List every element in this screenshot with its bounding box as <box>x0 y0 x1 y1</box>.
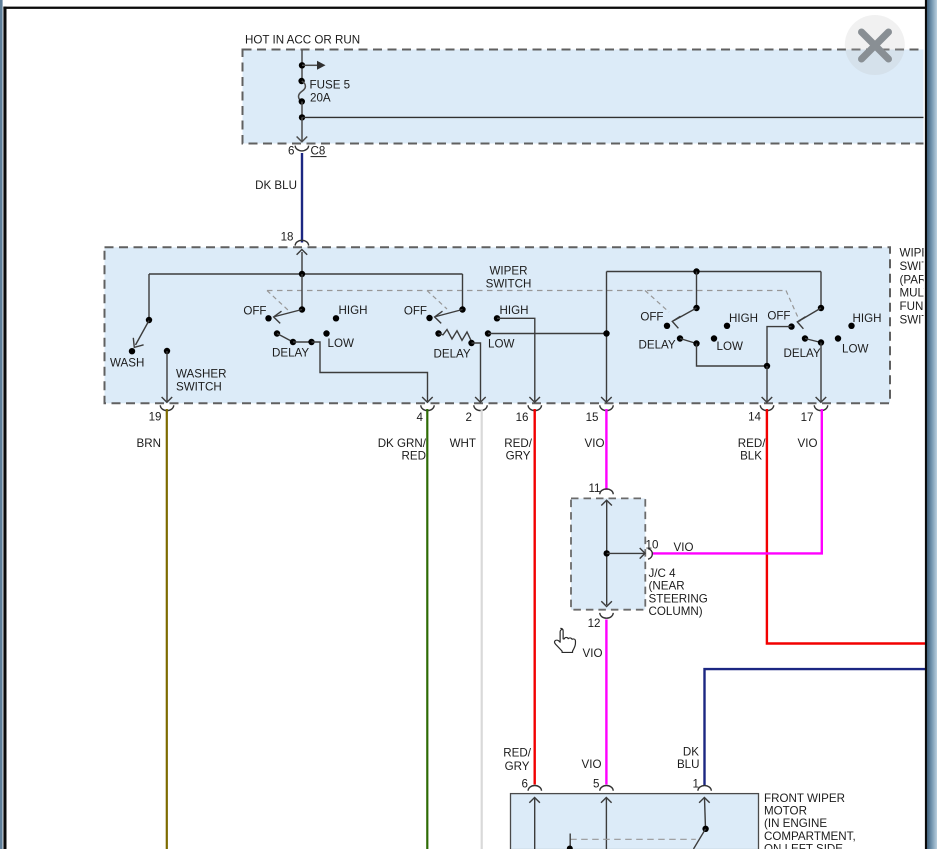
wire BRN from pin 19 <box>166 409 168 849</box>
label DK GRN/RED <box>378 437 427 463</box>
svg-text:WHT: WHT <box>450 437 476 450</box>
switch 4 HIGH contact <box>848 323 854 329</box>
svg-text:ON LEFT SIDE: ON LEFT SIDE <box>764 843 843 849</box>
junction dot feed switch 3 <box>693 268 699 274</box>
wire RED/BLK from pin 14 to right edge <box>767 409 925 644</box>
svg-text:C8: C8 <box>311 145 326 158</box>
svg-text:MOTOR: MOTOR <box>764 805 807 818</box>
svg-text:VIO: VIO <box>582 758 602 771</box>
connector pin 14 <box>748 405 774 423</box>
svg-text:DELAY: DELAY <box>784 347 821 360</box>
svg-text:DK BLU: DK BLU <box>255 179 297 192</box>
svg-text:DELAY: DELAY <box>272 347 309 360</box>
svg-text:HIGH: HIGH <box>853 312 882 325</box>
switch 4 pivot node <box>818 305 824 311</box>
close button <box>845 15 905 75</box>
wire branch arrow right <box>302 61 326 70</box>
svg-text:6: 6 <box>522 778 528 791</box>
wire VIO from junction block pin 12 to motor pin 5 <box>605 620 607 785</box>
wire motor pin 5 entry arrow up <box>601 798 612 849</box>
wire RED/GRY from pin 16 to motor pin 6 <box>534 409 536 785</box>
connector pin 12 junction block <box>588 613 614 630</box>
front wiper motor box <box>511 794 759 849</box>
wire switch 1 delay to pin 4 with arrow <box>312 342 433 402</box>
wire VIO from pin 15 to junction block <box>605 409 607 490</box>
wire fuse feed from box top <box>301 50 303 81</box>
switch 3 OFF contact <box>664 323 670 329</box>
svg-text:HOT IN ACC OR RUN: HOT IN ACC OR RUN <box>245 34 360 47</box>
wire junction block branch right with arrow <box>607 548 645 559</box>
label WIPER SWITCH (PART OF MULTI-FUNCTION SWITCH) right margin <box>900 247 937 327</box>
svg-text:LOW: LOW <box>717 340 743 353</box>
wire pin 15 vertical with arrow <box>601 272 612 403</box>
wiper switch box <box>105 247 891 403</box>
svg-text:2: 2 <box>466 411 472 424</box>
svg-text:DK GRN/: DK GRN/ <box>378 437 427 450</box>
switch 4 OFF contact <box>788 323 794 329</box>
switch 2 OFF contact <box>426 315 432 321</box>
junction dot at fuse output <box>299 114 305 120</box>
svg-text:11: 11 <box>588 482 600 495</box>
junction dot J/C 4 <box>604 550 610 556</box>
svg-text:DELAY: DELAY <box>434 348 471 361</box>
label FRONT WIPER MOTOR (IN ENGINE COMPARTMENT...) <box>764 792 856 849</box>
label J/C 4 (NEAR STEERING COLUMN) <box>649 567 708 618</box>
wire switch 2 LOW to pin 15 line <box>488 333 607 335</box>
dashed mechanical linkage line <box>267 290 787 292</box>
svg-text:WASH: WASH <box>110 357 144 370</box>
wire DK BLU C8 to wiper switch pin 18 <box>301 153 303 243</box>
svg-text:STEERING: STEERING <box>649 592 708 605</box>
fuse FUSE 5 element <box>298 78 305 105</box>
svg-text:16: 16 <box>516 411 529 424</box>
svg-text:VIO: VIO <box>798 437 818 450</box>
switch 4 DELAY contact and blade <box>802 335 824 345</box>
svg-text:COMPARTMENT,: COMPARTMENT, <box>764 830 856 843</box>
svg-text:4: 4 <box>417 411 424 424</box>
svg-text:LOW: LOW <box>842 343 868 356</box>
svg-text:WIPER: WIPER <box>489 265 527 278</box>
wire DK GRN/RED from pin 4 <box>426 409 428 849</box>
wire feed corner down to switch 4 pivot <box>820 272 822 309</box>
power distribution box (hot in acc or run) <box>243 50 937 144</box>
wire motor pin 6 entry arrow up <box>529 798 540 849</box>
switch 1 pivot node <box>299 306 305 312</box>
svg-text:(IN ENGINE: (IN ENGINE <box>764 817 827 830</box>
connector motor pin 6 <box>522 778 542 791</box>
junction dot at fuse feed <box>299 62 305 68</box>
svg-text:DK: DK <box>683 746 699 759</box>
wire feed corner down to switch 2 pivot <box>462 274 464 310</box>
connector pin 16 <box>516 405 542 424</box>
switch 2 blade with arrow to OFF <box>435 310 463 324</box>
junction block J/C 4 box <box>571 498 645 609</box>
label RED/GRY at motor <box>503 747 531 773</box>
label WIPER SWITCH <box>486 265 532 291</box>
svg-text:(NEAR: (NEAR <box>649 580 685 593</box>
label WASHER SWITCH <box>176 368 226 394</box>
value label FUSE 5 / 20A <box>310 79 351 105</box>
wire DK BLU from right edge to motor pin 1 <box>705 669 926 785</box>
connector pin 17 <box>801 405 828 424</box>
dashed linkage diagonal switch 2 <box>427 291 447 310</box>
switch 2 pivot node <box>459 306 465 312</box>
connector pin 4 <box>417 405 435 424</box>
wire feed down to switch 3 pivot <box>696 272 698 309</box>
wire switch 4 OFF to junction <box>767 327 792 366</box>
svg-text:OFF: OFF <box>243 305 266 318</box>
page frame top black border <box>3 7 925 9</box>
switch 3 pivot node <box>693 305 699 311</box>
switch 2 HIGH contact <box>494 315 500 321</box>
wire fuse output down with arrow to C8 <box>297 117 308 141</box>
svg-text:HIGH: HIGH <box>339 304 368 317</box>
svg-text:OFF: OFF <box>404 305 427 318</box>
svg-text:RED/: RED/ <box>738 437 766 450</box>
wire WHT from pin 2 <box>481 409 483 849</box>
wire switch 3 delay to junction under switch 4 <box>697 344 768 367</box>
junction dot off4 delay3 <box>764 363 770 369</box>
label DK BLU at motor <box>677 746 700 771</box>
switch 3 DELAY contact and blade <box>677 335 700 346</box>
label RED/BLK <box>738 437 766 463</box>
mouse cursor pointer <box>555 628 576 652</box>
switch 4 LOW contact <box>835 335 841 341</box>
svg-text:COLUMN): COLUMN) <box>649 605 703 618</box>
connector C8 pin 6 <box>288 145 326 158</box>
svg-text:12: 12 <box>588 617 601 630</box>
connector pin 11 junction block <box>588 482 613 495</box>
connector pin 15 <box>586 405 614 424</box>
svg-text:FUSE 5: FUSE 5 <box>310 79 351 92</box>
motor park switch blade node <box>702 826 708 832</box>
page frame left black border <box>3 7 6 849</box>
wire switch 4 delay to pin 17 with arrow <box>816 343 827 403</box>
svg-text:FRONT WIPER: FRONT WIPER <box>764 792 845 805</box>
svg-text:SWITCH: SWITCH <box>486 278 532 291</box>
connector pin 19 <box>149 405 174 423</box>
dashed linkage diagonal switch 1 <box>267 291 289 312</box>
svg-text:WASHER: WASHER <box>176 368 226 381</box>
wire pin18 entry arrow up <box>297 250 308 275</box>
scrollbar blue bar <box>927 0 937 849</box>
svg-text:RED: RED <box>402 450 426 463</box>
svg-text:DELAY: DELAY <box>639 339 676 352</box>
wire feed bus right (pin 15 to switches 3 and 4) <box>607 271 822 273</box>
svg-text:10: 10 <box>646 539 659 552</box>
svg-text:J/C 4: J/C 4 <box>649 567 677 580</box>
node wash branch contact <box>146 317 152 323</box>
wire motor pin 1 entry arrow up <box>699 798 710 829</box>
page frame left blue sliver <box>0 0 3 849</box>
svg-text:RED/: RED/ <box>503 747 531 760</box>
wire washer switch to pin 19 with arrow <box>162 351 173 402</box>
dashed linkage diagonal switch 4 <box>786 291 800 323</box>
svg-text:VIO: VIO <box>583 647 603 660</box>
wire wash branch down <box>148 274 150 320</box>
junction dot low2 to pin15 <box>603 330 609 336</box>
svg-text:VIO: VIO <box>674 541 694 554</box>
connector motor pin 5 <box>593 778 613 791</box>
svg-text:VIO: VIO <box>585 437 605 450</box>
wire VIO from pin 17 to junction block pin 10 <box>652 409 822 553</box>
svg-text:20A: 20A <box>310 92 331 105</box>
motor park switch blade <box>694 829 706 849</box>
svg-text:OFF: OFF <box>640 311 663 324</box>
svg-text:5: 5 <box>593 778 599 791</box>
wire fuse output bus to right edge <box>302 116 924 118</box>
svg-text:LOW: LOW <box>488 338 514 351</box>
svg-text:GRY: GRY <box>505 760 530 773</box>
svg-text:14: 14 <box>748 411 761 424</box>
connector pin 10 junction block <box>646 539 659 560</box>
resistor delay switch 2 <box>435 330 474 347</box>
washer switch contact node <box>164 348 170 354</box>
page frame right black border <box>925 0 927 849</box>
switch 1 LOW contact <box>323 330 329 336</box>
svg-text:RED/: RED/ <box>504 437 532 450</box>
motor park switch dashed linkage <box>567 834 696 849</box>
connector motor pin 1 <box>693 778 712 791</box>
wire switch 2 HIGH to pin 16 with arrow <box>497 318 540 402</box>
switch 1 HIGH contact <box>333 315 339 321</box>
junction dot feed at pin18 <box>299 271 305 277</box>
switch 1 DELAY contact and blade <box>274 330 315 345</box>
svg-text:BLK: BLK <box>740 450 762 463</box>
svg-text:BRN: BRN <box>137 437 161 450</box>
svg-text:BLU: BLU <box>677 758 700 771</box>
switch 1 OFF contact <box>265 315 271 321</box>
label RED/GRY top <box>504 437 532 463</box>
svg-text:6: 6 <box>288 145 294 158</box>
svg-text:OFF: OFF <box>767 310 790 323</box>
switch blade WASH <box>129 321 149 355</box>
wire junction block vertical with up arrow <box>601 500 612 607</box>
switch 2 LOW contact <box>485 330 491 336</box>
switch 3 LOW contact <box>711 335 717 341</box>
wire junction to pin 14 with arrow <box>762 366 773 402</box>
wire feed bus left (18 to wash and switch 2) <box>149 273 463 275</box>
switch 1 blade with arrow to OFF <box>274 310 302 324</box>
svg-text:LOW: LOW <box>328 337 354 350</box>
switch 3 HIGH contact <box>724 323 730 329</box>
svg-text:15: 15 <box>586 411 599 424</box>
wire fuse to output junction <box>301 102 303 118</box>
svg-text:19: 19 <box>149 411 162 424</box>
switch 4 blade with arrow to OFF <box>797 308 821 329</box>
svg-text:17: 17 <box>801 411 814 424</box>
svg-text:HIGH: HIGH <box>500 304 529 317</box>
svg-text:SWITCH: SWITCH <box>176 381 222 394</box>
svg-text:HIGH: HIGH <box>729 312 758 325</box>
dashed linkage diagonal switch 3 <box>645 291 669 313</box>
switch 1 pivot feed wire <box>301 274 303 310</box>
connector pin 2 <box>466 405 488 424</box>
svg-text:18: 18 <box>281 231 294 244</box>
switch 3 blade with arrow to OFF <box>672 308 696 328</box>
connector pin 18 of wiper switch <box>281 231 309 246</box>
svg-text:GRY: GRY <box>506 450 531 463</box>
wire switch 2 delay to pin 2 with arrow <box>472 343 486 402</box>
